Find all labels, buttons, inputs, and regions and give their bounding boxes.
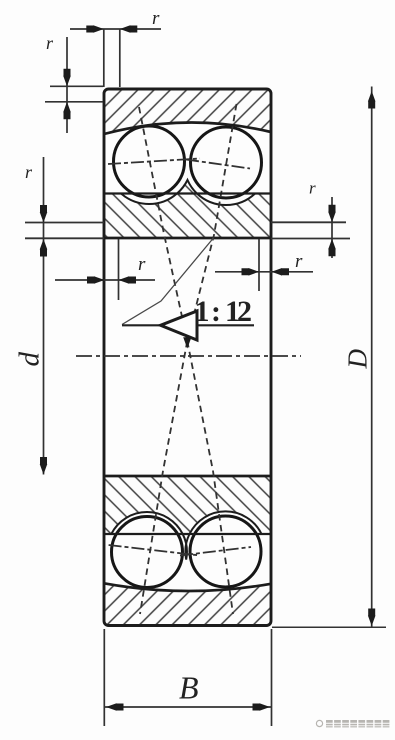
svg-text:2: 2	[237, 295, 252, 328]
svg-text:1: 1	[195, 295, 210, 328]
svg-text::: :	[211, 295, 221, 328]
svg-text:r: r	[309, 179, 316, 198]
svg-text:D: D	[343, 349, 373, 370]
svg-text:r: r	[152, 8, 160, 29]
svg-text:r: r	[25, 162, 33, 182]
svg-text:d: d	[14, 352, 46, 367]
svg-text:r: r	[138, 254, 146, 275]
svg-text:r: r	[295, 251, 303, 272]
svg-text:r: r	[46, 33, 54, 53]
svg-text:B: B	[179, 670, 199, 706]
